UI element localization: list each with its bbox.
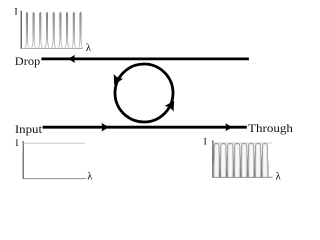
svg-text:Drop: Drop [15, 56, 41, 68]
through spectrum notch 7 [261, 147, 263, 177]
through spectrum notch 3 [233, 147, 235, 177]
svg-text:I: I [14, 7, 17, 18]
through spectrum continuum top line [213, 142, 272, 144]
through spectrum band 1 [213, 144, 220, 178]
through spectrum notch 6 [254, 147, 256, 177]
drop-port comb peak 2 [31, 12, 36, 48]
drop-port spectrum x-axis [21, 48, 82, 50]
drop-port comb peak 1 [25, 12, 30, 48]
input spectrum y-axis [22, 141, 24, 179]
through-direction arrowhead (points right) [225, 123, 232, 131]
through spectrum notch 1 [219, 147, 221, 177]
through spectrum notch 2 [226, 147, 228, 177]
through spectrum y-axis [212, 140, 214, 177]
through spectrum band 7 [255, 144, 262, 178]
svg-text:λ: λ [276, 171, 282, 182]
svg-text:Input: Input [15, 124, 43, 136]
drop-port comb peak 4 [45, 12, 50, 48]
svg-text:I: I [204, 136, 207, 146]
through spectrum notch 4 [240, 147, 242, 177]
drop-port comb peak 5 [51, 12, 56, 48]
through spectrum band 4 [234, 144, 241, 178]
drop-port spectrum y-axis [20, 11, 22, 49]
input spectrum flat continuum level [23, 142, 84, 144]
drop-port comb peak 8 [72, 12, 77, 48]
through spectrum band 8 [262, 144, 269, 178]
ring resonator [115, 64, 173, 122]
svg-text:Through: Through [248, 123, 293, 135]
through spectrum x-axis [213, 176, 273, 178]
drop-direction arrowhead (points left) [68, 55, 75, 63]
drop-port comb peak 7 [65, 12, 70, 48]
input-direction arrowhead (points right) [101, 123, 109, 132]
input spectrum x-axis [23, 178, 86, 180]
svg-text:λ: λ [86, 43, 92, 54]
svg-text:I: I [15, 138, 18, 148]
through spectrum notch 5 [247, 147, 249, 177]
svg-text:λ: λ [87, 172, 93, 183]
drop-port comb peak 9 [78, 12, 83, 48]
drop-port comb peak 6 [58, 12, 63, 48]
drop waveguide wire [41, 58, 249, 61]
input/through waveguide wire [43, 126, 247, 129]
drop-port comb peak 3 [38, 12, 43, 48]
ring circulation arrowhead right (points up-right) [164, 98, 178, 112]
ring circulation arrowhead left (points down-left) [109, 74, 123, 88]
through spectrum band 5 [241, 144, 248, 178]
through spectrum band 6 [248, 144, 255, 178]
through spectrum band 2 [220, 144, 227, 178]
through spectrum band 3 [227, 144, 234, 178]
